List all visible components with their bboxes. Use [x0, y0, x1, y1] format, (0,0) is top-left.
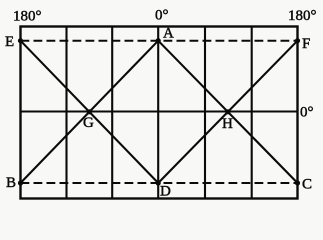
svg-text:F: F	[302, 36, 310, 52]
svg-text:E: E	[5, 34, 14, 50]
svg-text:G: G	[83, 115, 94, 131]
svg-text:0°: 0°	[300, 105, 314, 121]
svg-text:D: D	[160, 184, 171, 200]
svg-text:0°: 0°	[155, 8, 169, 24]
svg-text:A: A	[163, 26, 174, 42]
svg-text:180°: 180°	[288, 8, 317, 24]
svg-text:180°: 180°	[13, 9, 42, 25]
svg-text:B: B	[6, 175, 16, 191]
svg-text:C: C	[302, 177, 312, 193]
svg-text:H: H	[222, 116, 233, 132]
